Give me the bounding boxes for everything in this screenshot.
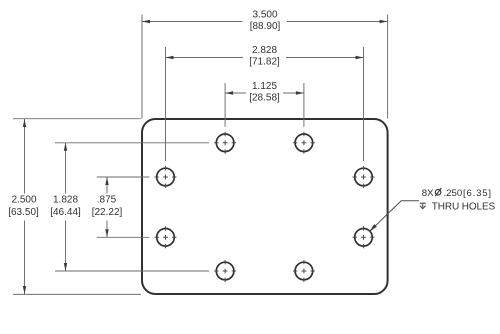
dimension 2.500 line <box>24 119 26 294</box>
center mark hole D <box>353 166 375 188</box>
dimension 3.500 left arrow <box>142 20 150 23</box>
svg-text:1.828: 1.828 <box>53 195 78 206</box>
svg-text:[46.44]: [46.44] <box>50 207 81 218</box>
svg-text:[28.58]: [28.58] <box>249 93 280 104</box>
extension line plate top edge left <box>13 118 141 120</box>
extension line hole E row left <box>97 236 150 238</box>
dimension 2.500 bottom arrow <box>23 286 26 294</box>
center mark hole C <box>155 166 177 188</box>
center mark hole B <box>293 132 315 154</box>
leader line to hole F <box>370 201 419 232</box>
dimension 1.125 right arrow <box>296 91 304 94</box>
hole H bottom-right <box>295 262 313 280</box>
hole E mid-left lower <box>157 229 175 247</box>
dimension 1.828 line <box>65 143 67 271</box>
extension line hole G row left <box>55 270 209 272</box>
hole A top-left <box>216 134 234 152</box>
svg-text:.875: .875 <box>97 195 117 206</box>
extension line hole C row left <box>97 176 150 178</box>
svg-text:.250: .250 <box>444 188 463 199</box>
svg-text:[6.35]: [6.35] <box>463 188 492 199</box>
hole B top-right <box>295 134 313 152</box>
hole C mid-left upper <box>157 168 175 186</box>
dimension 1.125 left arrow <box>225 91 233 94</box>
hole D mid-right upper <box>355 168 373 186</box>
svg-text:[88.90]: [88.90] <box>250 21 281 32</box>
center mark hole A <box>214 132 236 154</box>
hole F mid-right lower <box>355 229 373 247</box>
svg-text:[63.50]: [63.50] <box>8 207 39 218</box>
plate outline <box>142 119 388 294</box>
svg-text:2.500: 2.500 <box>11 195 36 206</box>
svg-text:[22.22]: [22.22] <box>92 207 123 218</box>
dimension .875 top arrow <box>105 177 108 185</box>
dimension 2.828 left arrow <box>166 56 174 59</box>
svg-text:[71.82]: [71.82] <box>249 57 280 68</box>
extension line hole B column up <box>303 83 305 127</box>
dimension .875 line <box>106 177 108 237</box>
dimension 2.500 top arrow <box>23 119 26 127</box>
dimension 3.500 line <box>142 21 388 23</box>
dimension 3.500 right arrow <box>380 20 388 23</box>
extension line hole D column up <box>363 47 365 161</box>
dimension 2.828 right arrow <box>356 56 364 59</box>
dimension 1.828 top arrow <box>64 143 67 151</box>
svg-text:3.500: 3.500 <box>252 10 277 21</box>
leader arrow <box>370 224 377 231</box>
center mark hole E <box>155 226 177 248</box>
center mark hole H <box>293 260 315 282</box>
extension line plate right edge up <box>387 15 389 119</box>
dimension .875 bottom arrow <box>105 229 108 237</box>
svg-text:THRU HOLES: THRU HOLES <box>432 201 496 212</box>
extension line hole A row left <box>55 142 209 144</box>
svg-text:1.125: 1.125 <box>252 81 277 92</box>
center mark hole G <box>214 260 236 282</box>
hole G bottom-left <box>216 262 234 280</box>
dimension 2.828 line <box>166 57 364 59</box>
extension line hole A column up <box>224 83 226 127</box>
extension line plate bottom edge left <box>13 293 141 295</box>
depth symbol <box>420 203 426 209</box>
dimension 1.828 bottom arrow <box>64 263 67 271</box>
dimension 1.125 line <box>225 92 304 94</box>
extension line hole C column up <box>165 47 167 161</box>
center mark hole F <box>353 226 375 248</box>
svg-text:8X: 8X <box>422 188 434 199</box>
svg-text:2.828: 2.828 <box>252 45 277 56</box>
diameter symbol <box>435 188 441 196</box>
extension line plate left edge up <box>141 15 143 119</box>
